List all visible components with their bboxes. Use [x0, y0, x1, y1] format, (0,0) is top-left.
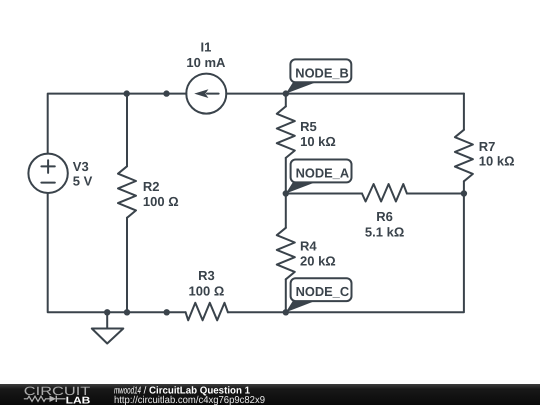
svg-text:NODE_A: NODE_A: [296, 165, 350, 180]
wire middle horizontal (R6 to right): [407, 193, 464, 195]
footer title line: [114, 385, 250, 396]
svg-text:R4: R4: [300, 238, 317, 253]
label R6 name: [376, 209, 393, 224]
svg-text:R2: R2: [143, 179, 160, 194]
junction dot top I1 terminal: [163, 90, 169, 96]
label R4 name: [300, 238, 317, 253]
svg-text:10 mA: 10 mA: [186, 55, 226, 70]
ground: [92, 312, 124, 343]
svg-text:R6: R6: [376, 209, 393, 224]
label R5 value: [300, 134, 336, 149]
wire left vertical bottom segment: [48, 193, 107, 312]
svg-text:10 kΩ: 10 kΩ: [479, 154, 515, 169]
label R7 name: [479, 139, 496, 154]
footer logo diode symbol: [50, 396, 66, 402]
label R4 value: [300, 253, 336, 268]
junction dot node B: [283, 90, 289, 96]
junction dot top R2: [124, 90, 130, 96]
svg-text:10 kΩ: 10 kΩ: [300, 134, 336, 149]
label R3 value: [189, 284, 225, 299]
junction dot bottom R3 terminal: [164, 309, 170, 315]
label V3 value: [73, 173, 93, 188]
voltage source V3: [28, 154, 67, 193]
wire top horizontal left (to I1): [127, 93, 187, 95]
junction dot right mid: [461, 190, 467, 196]
resistor R6: [362, 184, 407, 202]
label R2 name: [143, 179, 160, 194]
svg-text:R5: R5: [300, 119, 317, 134]
footer logo CIRCUIT text: [24, 384, 91, 398]
footer bar: [0, 384, 540, 405]
svg-text:http://circuitlab.com/c4xg76p9: http://circuitlab.com/c4xg76p9c82x9: [114, 395, 265, 405]
junction dot node A: [283, 190, 289, 196]
junction dot node C: [283, 309, 289, 315]
label R3 name: [198, 268, 215, 283]
svg-text:NODE_C: NODE_C: [296, 284, 350, 299]
junction dot bottom ground: [104, 309, 110, 315]
node label NODE_A: [286, 160, 352, 194]
wire right vertical bottom segment: [228, 194, 464, 313]
svg-text:5.1 kΩ: 5.1 kΩ: [365, 225, 404, 240]
footer url line: [114, 395, 265, 405]
label R7 value: [479, 154, 515, 169]
svg-text:LAB: LAB: [66, 395, 91, 405]
node label NODE_B: [286, 59, 352, 93]
resistor R7: [455, 94, 473, 194]
label V3 name: [73, 159, 89, 174]
wire left vertical top segment: [48, 94, 127, 154]
footer logo resistor symbol: [24, 396, 50, 401]
label I1 value: [186, 55, 226, 70]
svg-text:V3: V3: [73, 159, 89, 174]
svg-text:I1: I1: [200, 40, 211, 55]
resistor R2: [118, 94, 136, 313]
svg-text:100 Ω: 100 Ω: [189, 284, 225, 299]
svg-text:5 V: 5 V: [73, 173, 93, 188]
svg-text:R3: R3: [198, 268, 215, 283]
label R2 value: [143, 194, 179, 209]
label R6 value: [365, 225, 404, 240]
resistor R5: [277, 94, 295, 194]
wire middle horizontal (node A to R6): [286, 193, 362, 195]
footer logo LAB text: [66, 395, 91, 405]
resistor R4: [277, 194, 295, 313]
wire bottom horizontal left: [107, 311, 185, 313]
junction dot bottom R2: [124, 309, 130, 315]
node label NODE_C: [286, 278, 352, 312]
label R5 name: [300, 119, 317, 134]
svg-text:NODE_B: NODE_B: [295, 65, 349, 80]
resistor R3: [186, 303, 228, 321]
label I1 name: [200, 40, 211, 55]
svg-text:100 Ω: 100 Ω: [143, 194, 179, 209]
current source I1: [186, 74, 226, 114]
svg-text:20 kΩ: 20 kΩ: [300, 253, 336, 268]
wire top horizontal right (I1 to R7): [226, 93, 464, 95]
svg-text:R7: R7: [479, 139, 496, 154]
